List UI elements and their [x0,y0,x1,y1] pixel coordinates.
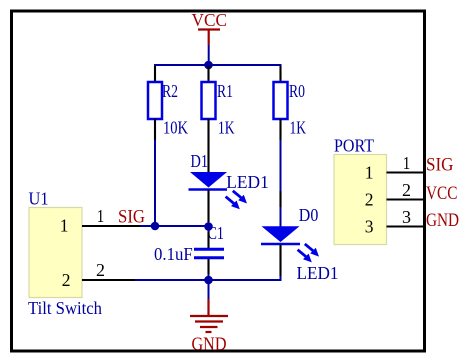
connector PORT box [334,155,387,245]
pin C1 bottom [207,259,209,274]
power port VCC stem [208,30,210,46]
svg-text:1: 1 [365,162,374,182]
svg-text:1: 1 [60,216,69,236]
wire VCC stem to rail [208,45,210,65]
pin C1 top [207,232,209,248]
svg-text:LED1: LED1 [297,263,339,283]
svg-text:10K: 10K [163,118,188,138]
LED D0 cathode bar [261,243,300,246]
ground bar 3 [200,326,218,328]
PORT pin 1 wire [387,171,425,173]
junction D1/C1 [204,222,213,231]
svg-text:VCC: VCC [192,10,228,30]
resistor R1 [202,82,216,119]
svg-text:R1: R1 [217,81,233,101]
resistor R0 [274,82,288,119]
svg-text:D1: D1 [191,151,209,171]
wire D0 to GND rail [278,276,281,280]
svg-text:GND: GND [192,334,227,355]
svg-text:GND: GND [426,210,459,231]
wire GND drop [208,280,210,299]
svg-text:D0: D0 [299,205,319,225]
LED D1 emission arrow 1 [233,191,247,204]
LED D1 emission arrow 2 [226,197,240,210]
wire SIG net [140,225,209,227]
svg-text:R2: R2 [162,81,178,101]
svg-text:1: 1 [403,153,411,173]
PORT pin 3 wire [387,225,425,227]
capacitor C1 plate bottom [194,256,224,259]
svg-text:C1: C1 [208,223,225,243]
junction VCC/rail [204,61,213,70]
junction R2/SIG [151,222,160,231]
svg-text:3: 3 [365,216,374,236]
pin R2 top [154,66,156,82]
svg-text:2: 2 [365,189,374,209]
svg-text:1K: 1K [218,118,235,138]
svg-text:1: 1 [97,206,105,226]
svg-text:3: 3 [402,207,411,227]
wire C1 to GND rail [208,274,210,280]
svg-text:1K: 1K [290,118,307,138]
svg-text:R0: R0 [289,81,305,101]
pin R1 top [207,66,209,82]
pin R0 bottom [279,119,281,140]
wire bottom rail [135,279,281,281]
ground bar 4 [206,331,212,333]
LED D0 triangle [262,226,300,242]
wire D0 anode stub [280,207,282,227]
svg-text:SIG: SIG [426,155,454,176]
LED D0 emission arrow 1 [305,244,319,257]
wire R2 to SIG node [154,140,156,226]
ground bar 2 [195,320,223,322]
U1 pin 1 wire [82,225,140,227]
U1 pin 2 wire [82,279,135,281]
pin R2 bottom [154,119,156,140]
svg-text:PORT: PORT [334,136,374,156]
power port VCC bar [198,28,220,30]
pin R1 bottom [207,119,209,173]
svg-text:2: 2 [402,180,411,200]
ground stem [207,299,209,315]
LED D0 emission arrow 2 [298,250,312,263]
svg-text:VCC: VCC [426,183,458,204]
capacitor C1 plate top [194,248,224,251]
PORT pin 2 wire [387,198,425,200]
wire D1 to SIG node [208,222,210,226]
svg-text:Tilt Switch: Tilt Switch [28,298,102,318]
svg-text:2: 2 [62,270,71,290]
svg-text:SIG: SIG [118,207,145,227]
svg-text:2: 2 [96,260,105,280]
component U1 box [29,208,82,298]
LED D1 triangle [190,172,227,188]
wire SIG node to C1 [208,226,210,232]
LED D1 cathode bar [189,188,228,191]
pin D0 cathode [279,245,281,276]
ground bar 1 [190,315,228,317]
pin R0 top [279,66,281,82]
wire R0 to D0 [280,140,282,191]
wire top rail [155,65,281,67]
junction GND rail [204,276,213,285]
svg-text:U1: U1 [29,189,49,209]
resistor R2 [148,82,162,119]
pin D1 cathode [207,190,209,222]
svg-text:LED1: LED1 [226,172,268,192]
pin D0 anode [279,191,281,207]
svg-text:0.1uF: 0.1uF [154,244,193,264]
